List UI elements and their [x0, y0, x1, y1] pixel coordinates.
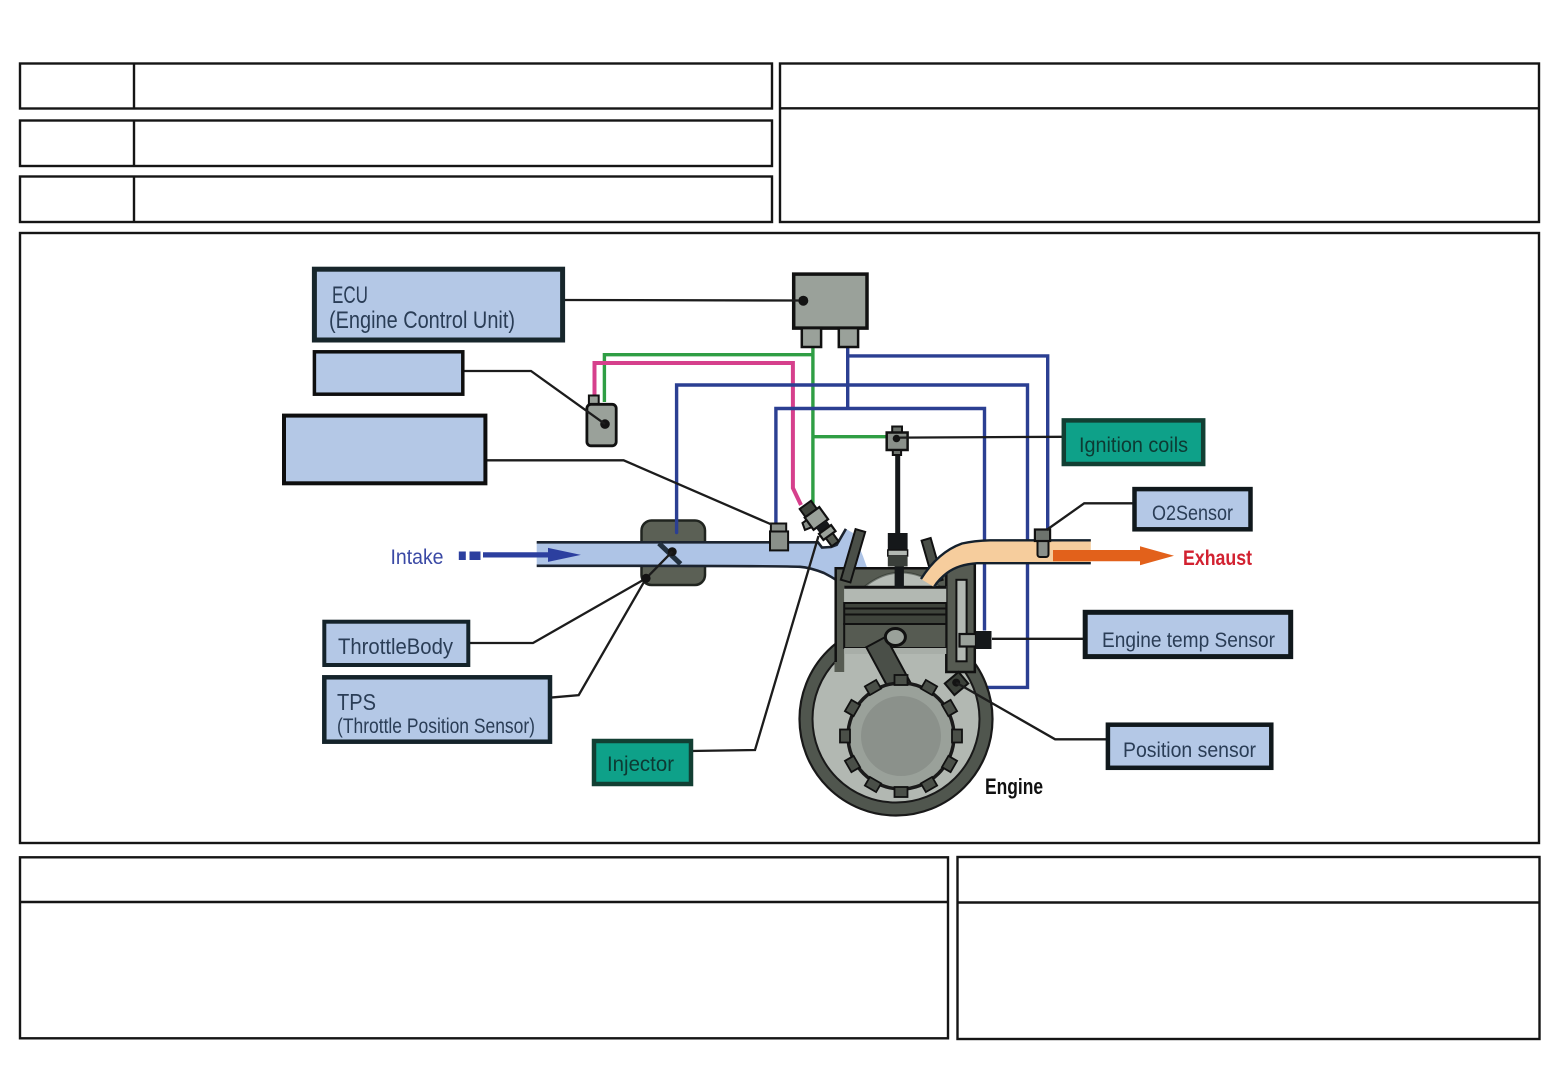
- pointer line Injector: [691, 536, 819, 751]
- crankcase: [806, 629, 986, 809]
- flywheel: [840, 675, 962, 797]
- table top-right: [780, 64, 1539, 223]
- intake arrow: [483, 548, 581, 562]
- label box Ignition coils: [1064, 420, 1203, 464]
- throttle body: [642, 521, 706, 586]
- pointer line ThrottleBody: [468, 578, 646, 643]
- intake valve: [841, 529, 865, 582]
- label box ThrottleBody: [324, 622, 468, 665]
- O2 sensor: [1038, 537, 1049, 557]
- wire blue throttle body to position sensor: [677, 385, 1028, 687]
- combustion chamber dome: [863, 573, 942, 589]
- pointer line box3 to TPS connector: [485, 460, 771, 524]
- cylinder block: [835, 567, 957, 672]
- position sensor: [945, 672, 968, 695]
- svg-text:ECU: ECU: [332, 282, 368, 309]
- connecting rod: [866, 637, 912, 697]
- svg-text:(Throttle Position Sensor): (Throttle Position Sensor): [337, 715, 535, 738]
- TPS connector: [770, 531, 788, 550]
- intake arrow dashes: [459, 552, 466, 561]
- svg-text:Injector: Injector: [607, 753, 674, 776]
- label box Engine temp Sensor: [1085, 612, 1291, 656]
- wire blue ECU right pin down: [846, 332, 849, 409]
- injector: [793, 499, 842, 553]
- wire blue TPS to engine temp sensor: [776, 409, 985, 631]
- svg-text:O2Sensor: O2Sensor: [1152, 502, 1233, 525]
- engine temp sensor: [960, 634, 977, 647]
- label box blank large: [284, 416, 485, 484]
- exhaust valve: [922, 538, 943, 582]
- svg-text:TPS: TPS: [337, 689, 376, 715]
- table bottom-left: [20, 857, 948, 1038]
- svg-text:Position sensor: Position sensor: [1123, 739, 1256, 762]
- svg-text:Engine temp Sensor: Engine temp Sensor: [1102, 629, 1275, 652]
- svg-text:ThrottleBody: ThrottleBody: [338, 634, 453, 659]
- label box blank small: [314, 352, 462, 394]
- intake pipe: [537, 529, 875, 596]
- label box Position sensor: [1108, 725, 1271, 768]
- pointer line Position sensor: [956, 683, 1108, 740]
- pointer line box2 to MAP sensor: [463, 371, 605, 424]
- table top-left row3: [20, 177, 772, 223]
- butterfly valve: [659, 543, 681, 564]
- piston: [844, 586, 946, 603]
- pointer line Ignition coils: [900, 436, 1064, 439]
- label box TPS: [324, 677, 550, 741]
- water jacket: [946, 564, 975, 673]
- MAP sensor: [589, 396, 599, 405]
- label box Injector: [594, 741, 691, 784]
- ECU device: [794, 274, 867, 328]
- pointer link butterfly: [646, 552, 672, 579]
- cylinder bore: [844, 586, 946, 672]
- table bottom-right: [958, 857, 1540, 1039]
- label box O2Sensor: [1135, 489, 1251, 529]
- svg-text:Exhaust: Exhaust: [1183, 547, 1252, 570]
- wrist pin: [885, 629, 905, 646]
- ignition coil: [892, 427, 902, 433]
- main diagram frame: [20, 233, 1539, 843]
- svg-text:(Engine Control Unit): (Engine Control Unit): [329, 307, 515, 334]
- label box ECU: [314, 269, 562, 340]
- table top-left row2: [20, 121, 772, 167]
- wire pink MAP to injector: [595, 363, 802, 505]
- exhaust arrow: [1053, 546, 1174, 565]
- exhaust pipe: [921, 540, 1091, 587]
- wire green ECU to injector: [604, 330, 886, 512]
- pointer line ECU: [563, 299, 799, 302]
- svg-text:Intake: Intake: [391, 546, 444, 569]
- pointer line Engine temp Sensor: [992, 638, 1085, 640]
- pointer line O2Sensor: [1047, 503, 1135, 530]
- wire blue to O2 sensor: [848, 356, 1048, 531]
- pointer line TPS: [550, 578, 647, 697]
- svg-text:Ignition coils: Ignition coils: [1079, 434, 1188, 457]
- table top-left row1: [20, 64, 772, 109]
- svg-text:Engine: Engine: [985, 774, 1043, 799]
- spark plug: [895, 454, 900, 534]
